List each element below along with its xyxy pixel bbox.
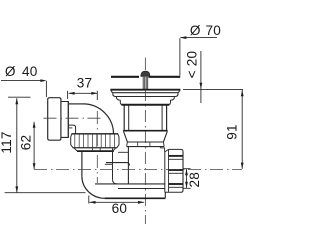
junction shelf left of cup	[118, 151, 128, 153]
arrow 28 up	[185, 169, 188, 175]
dim 28 ext lines	[183, 169, 190, 189]
cup top overhang	[123, 130, 167, 132]
svg-text:28: 28	[187, 172, 202, 188]
elbow bottom line and step	[68, 125, 75, 134]
tray surface line right	[149, 76, 181, 78]
tray surface line left	[111, 76, 139, 78]
elbow top line	[68, 103, 83, 105]
arrow 91 down	[241, 163, 244, 169]
nut B grooves	[169, 155, 184, 157]
drop pipe walls	[81, 152, 83, 176]
bottom elbow outer arc	[82, 176, 105, 198]
bottom pipe right lip	[164, 192, 166, 198]
axis socket horizontal dash-dot	[44, 117, 105, 119]
cup sloped sides	[124, 131, 168, 142]
step to nut B	[160, 148, 164, 152]
ext line bottom left	[5, 192, 86, 194]
dim 37 line	[69, 92, 98, 94]
cup collar band	[127, 142, 165, 147]
svg-text:62: 62	[18, 135, 33, 151]
cup left wall	[127, 147, 129, 184]
body top line	[122, 104, 170, 106]
flange mid line	[113, 92, 179, 94]
bottom pipe top line	[95, 183, 165, 185]
axis horizontal outlet dash-dot	[34, 168, 242, 170]
left socket flange	[48, 98, 61, 141]
flange top line	[110, 89, 180, 91]
dim Ø70 leader	[181, 37, 218, 39]
dim 91 line	[241, 90, 243, 169]
arrow 37 left	[68, 92, 74, 95]
svg-text:Ø: Ø	[190, 23, 201, 38]
arrow 28 down	[185, 182, 188, 188]
collar ticks	[138, 142, 150, 146]
dim 28 line	[186, 169, 188, 188]
arrow 62 up	[33, 122, 36, 128]
svg-text:40: 40	[22, 64, 38, 79]
nut A ribs	[75, 135, 115, 148]
axis drop pipe vertical dash-dot	[96, 111, 98, 183]
svg-text:Ø: Ø	[5, 64, 16, 79]
arrow 91 up	[241, 90, 244, 96]
dim 117 line	[16, 98, 18, 192]
arrow 62 down	[33, 163, 36, 169]
screw shaft	[143, 77, 148, 90]
flange lower band	[113, 93, 178, 96]
arrow 37 right	[91, 92, 97, 95]
flange skirt to neck	[116, 97, 122, 105]
centerline vertical main body	[144, 58, 146, 71]
dim 37 ext lines	[68, 91, 98, 100]
nut B bottom line	[165, 191, 181, 193]
nut B top chamfer	[165, 149, 169, 152]
arrow Ø40 right	[40, 79, 46, 82]
bottom pipe mid line	[118, 188, 165, 190]
bottom pipe bottom line	[105, 197, 166, 199]
arrow <20 down	[200, 83, 203, 89]
cup right wall stub	[159, 147, 161, 148]
screw head	[141, 71, 150, 76]
flange side slopes	[111, 90, 180, 93]
nut A body	[71, 134, 119, 148]
nut B right edge	[181, 151, 183, 192]
svg-text:117: 117	[0, 131, 14, 153]
svg-text:91: 91	[225, 124, 240, 140]
arrow 117 up	[15, 98, 18, 104]
body outer walls	[124, 106, 166, 131]
nut B inner left line	[168, 149, 170, 192]
bottom elbow inner arc	[113, 179, 118, 184]
svg-text:60: 60	[112, 201, 128, 216]
svg-text:< 20: < 20	[184, 51, 199, 79]
arrow 60 right	[138, 201, 144, 204]
arrow Ø70	[180, 36, 187, 39]
cup shoulder line	[127, 141, 163, 143]
nut A skirt	[74, 148, 116, 151]
arrow 117 down	[15, 186, 18, 192]
nut A skirt ticks	[93, 148, 101, 151]
arrowheads	[15, 36, 243, 204]
body inner walls	[129, 106, 162, 131]
svg-text:37: 37	[77, 75, 93, 90]
elbow outer arc	[83, 104, 114, 134]
dimension graphics	[1, 38, 243, 204]
dim 60 line	[90, 201, 145, 203]
ext line top left	[8, 96, 31, 98]
nut A bottom line	[73, 147, 117, 149]
dim 62 line	[33, 122, 35, 170]
nut A top line	[72, 133, 119, 135]
nut B top edge	[169, 149, 184, 151]
dim <20 line	[200, 51, 202, 103]
nut B left edge	[164, 152, 166, 192]
socket nut ring	[61, 102, 68, 138]
ext line flange top right	[183, 88, 243, 90]
dim 60 left ext	[88, 196, 90, 204]
dim Ø40 leader	[1, 80, 43, 82]
svg-text:70: 70	[206, 23, 222, 38]
arrow 60 left	[89, 201, 95, 204]
